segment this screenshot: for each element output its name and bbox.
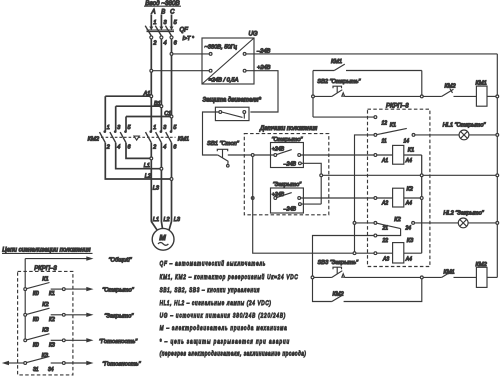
svg-text:L1: L1 (153, 217, 159, 223)
wire terminal 22 riser to arm (377, 229, 401, 236)
svg-text:КМ1: КМ1 (178, 137, 189, 143)
power supply UG box (202, 32, 258, 85)
svg-text:4: 4 (163, 145, 166, 151)
contact KM2 NC (423, 89, 476, 97)
svg-text:24: 24 (405, 226, 412, 232)
relay unit РКРП-3 dashed box (368, 109, 430, 266)
wire terminal 22 to SB3 node (313, 236, 375, 277)
node terminal A1 (374, 154, 377, 157)
svg-text:5: 5 (174, 20, 178, 26)
contact K2 signal (24, 308, 65, 316)
node bus junction K2 coil (420, 197, 423, 200)
svg-text:6: 6 (174, 40, 178, 46)
contactor coil KM2 (476, 267, 487, 287)
node bus junction at A3 row (353, 252, 356, 255)
wire protection to SB1 (203, 112, 219, 155)
wire -24 return to rail (323, 174, 496, 176)
svg-text:31: 31 (33, 367, 39, 373)
wire A1 to K1 coil (377, 154, 393, 156)
svg-text:5: 5 (128, 125, 132, 131)
svg-text:QF – автоматический выключател: QF – автоматический выключатель (160, 260, 266, 268)
svg-text:+24В: +24В (272, 146, 285, 152)
wire motor leads (151, 222, 171, 231)
wire A1 to KM2 pole1 (105, 96, 150, 131)
svg-text:1: 1 (153, 20, 156, 26)
svg-text:КМ1, КМ2 – контактор реверсивн: КМ1, КМ2 – контактор реверсивный Uк=24 V… (160, 273, 299, 281)
svg-text:12: 12 (382, 120, 388, 126)
relay coil K1 (393, 145, 404, 164)
wire K3 coil to bus (404, 252, 422, 254)
wire Закрыто with arrow (65, 313, 93, 317)
net Ввод ~380В title (144, 0, 181, 7)
breaker QF pole 1 arm (145, 26, 153, 39)
svg-text:КМ2: КМ2 (88, 137, 100, 143)
node rail junction KM1 coil (496, 95, 499, 98)
svg-text:1: 1 (153, 125, 156, 131)
svg-text:(перегрев электродвигателя, за: (перегрев электродвигателя, заклинивание… (160, 351, 306, 358)
pin K0 K3 labels (33, 342, 55, 348)
node terminal A2 (374, 197, 377, 200)
contact K3 signal (24, 334, 65, 342)
contactor KM1 pole 1 contact (146, 130, 153, 142)
svg-text:КМ1: КМ1 (331, 59, 342, 65)
wire signal common bus (24, 259, 26, 341)
node terminal 21 (374, 222, 377, 225)
svg-text:HL2 “Закрыто”: HL2 “Закрыто” (443, 211, 484, 217)
svg-text:SB1, SB2, SB3 – кнопки управле: SB1, SB2, SB3 – кнопки управления (160, 287, 260, 294)
svg-text:HL1, HL2 – сигнальные лампы (: HL1, HL2 – сигнальные лампы (24 VDC) (160, 300, 272, 307)
wire sensor closed output to K2 coil A2 (301, 197, 374, 199)
breaker QF pole 2 arm (155, 26, 163, 39)
sensor Закрыто box (271, 188, 304, 213)
wire C1 to KM2 pole3 (126, 117, 170, 132)
wire -24V right rail (496, 54, 498, 278)
node L2 (145, 167, 163, 179)
svg-text:К2: К2 (42, 302, 49, 308)
motor lead labels L1 L2 L3 (153, 217, 181, 223)
wire left arrow ready row (2, 361, 24, 365)
wire phase B incoming (159, 15, 163, 31)
svg-text:6: 6 (173, 145, 176, 151)
node L1 (144, 157, 153, 169)
svg-text:А4: А4 (405, 201, 412, 207)
node junction +24 to sensor closed (251, 197, 254, 200)
wire tap C to UG input (173, 53, 209, 55)
wire +24 feed bus vertical (355, 135, 375, 252)
svg-text:21: 21 (382, 226, 389, 232)
svg-text:КМ2: КМ2 (333, 291, 345, 297)
pin K0 K2 labels (33, 317, 55, 323)
svg-text:А1: А1 (381, 158, 388, 164)
svg-text:К1: К1 (390, 122, 396, 128)
node tap C to UG (170, 53, 173, 56)
wire K1 coil to minus bus (404, 154, 422, 156)
contact KM1 selfhold branch (313, 64, 422, 95)
svg-text:34: 34 (48, 367, 54, 373)
wire KM2 coil to rail (487, 276, 497, 278)
svg-text:“Закрыто”: “Закрыто” (104, 313, 134, 319)
pin K0 K1 labels (33, 291, 55, 297)
contact K1 signal (24, 283, 65, 291)
svg-text:К0: К0 (33, 291, 39, 297)
svg-text:HL1 “Открыто”: HL1 “Открыто” (443, 122, 487, 128)
wire sensor open output to K1 coil A1 (301, 154, 374, 156)
svg-text:L3: L3 (153, 185, 160, 191)
svg-text:“Готовность”: “Готовность” (99, 339, 138, 345)
svg-text:1: 1 (107, 125, 110, 131)
svg-text:5: 5 (173, 125, 177, 131)
svg-text:=24В / 0,5А: =24В / 0,5А (209, 78, 239, 84)
position sensors dashed box (244, 134, 328, 215)
svg-text:А2: А2 (381, 201, 388, 207)
lamp HL2 (458, 218, 468, 228)
wire +24 bus down (253, 156, 354, 253)
wire KM1 pole1 down to motor (150, 143, 152, 222)
wire HL2 to rail (468, 222, 496, 224)
svg-text:L3: L3 (174, 217, 181, 223)
relay coil K2 (393, 188, 404, 207)
svg-text:А4: А4 (405, 256, 412, 262)
wire sensor open -24 (301, 163, 321, 204)
signal РКРП-3 dashed box (18, 271, 73, 375)
wire bus to terminal 21 (356, 222, 374, 224)
wire terminal 14 to HL1 (415, 134, 459, 136)
wire KM1 coil to rail (487, 95, 496, 97)
node sensors -24 junction (320, 174, 323, 177)
svg-text:М – электродвигатель привода м: М – электродвигатель привода механизма (160, 325, 287, 332)
contact K3 ready (24, 356, 65, 364)
svg-text:К3: К3 (49, 342, 55, 348)
svg-text:К2: К2 (394, 217, 401, 223)
wire tap A to UG input (153, 70, 210, 72)
node L3 (153, 178, 173, 192)
svg-text:“Закрыто”: “Закрыто” (273, 182, 302, 188)
node junction after SB1 (251, 154, 254, 157)
node terminal 14 (412, 134, 415, 137)
node C1 (164, 111, 173, 118)
breaker QF tie bar (147, 30, 175, 32)
node rail junction HL1 (496, 134, 499, 137)
node terminal A3 (374, 252, 377, 255)
svg-text:* – цепь защиты разрывается п: * – цепь защиты разрывается при аварии (160, 339, 290, 346)
wire KM1 pole3 down to motor (171, 143, 173, 222)
wire KM2 pole1 crossover to L3 (105, 143, 170, 179)
node SB3 left junction (311, 276, 314, 279)
svg-text:Защита двигателя*: Защита двигателя* (203, 97, 262, 103)
contact KM2 selfhold branch (313, 279, 422, 302)
wire KM2 pole2 crossover to L2 (116, 143, 160, 169)
wire to A3 terminal (356, 252, 374, 254)
svg-text:В: В (161, 9, 165, 15)
svg-text:3: 3 (117, 125, 120, 131)
svg-text:К1: К1 (42, 276, 48, 282)
svg-text:А3: А3 (382, 256, 389, 262)
svg-text:“Готовность”: “Готовность” (102, 362, 141, 368)
svg-text:UG – источник питания 380/24В: UG – источник питания 380/24В (220/24В) (160, 313, 286, 320)
wire B1 to KM2 pole2 (116, 106, 160, 131)
wire SB2 node to terminal 12 (313, 116, 374, 118)
wire KM2 pole3 crossover to L1 (126, 143, 150, 159)
pushbutton SB2 (314, 86, 420, 96)
svg-text:К2: К2 (407, 186, 414, 192)
svg-text:А4: А4 (405, 158, 412, 164)
svg-text:К1: К1 (49, 291, 55, 297)
node SB2 left junction (312, 95, 315, 98)
contactor KM1 pole 3 contact (166, 130, 173, 142)
svg-text:–24В: –24В (283, 207, 297, 213)
node bus junction -24 row (420, 174, 423, 177)
svg-text:К3: К3 (42, 328, 49, 334)
wire phase B vertical (160, 39, 162, 131)
svg-text:А: А (150, 9, 155, 15)
svg-text:4: 4 (164, 40, 167, 46)
pushbutton SB1 (217, 149, 229, 167)
svg-text:К1: К1 (408, 148, 414, 154)
node B1 (154, 101, 163, 108)
wire Общий with arrow (25, 256, 93, 260)
svg-text:2: 2 (106, 145, 110, 151)
svg-text:3: 3 (163, 125, 166, 131)
wire Открыто with arrow (65, 287, 93, 291)
svg-text:L2: L2 (164, 217, 170, 223)
wire phase C incoming (170, 15, 174, 31)
signal circuits title (2, 247, 93, 254)
wire phase C vertical (171, 39, 173, 131)
wire +24V from UG (246, 71, 278, 112)
svg-text:QF: QF (180, 28, 189, 34)
pushbutton SB3 (314, 267, 421, 277)
wire K2 coil to bus (404, 197, 421, 199)
svg-text:3: 3 (164, 20, 168, 26)
wire terminal 24 to HL2 (415, 222, 459, 224)
wire HL1 to rail (469, 134, 496, 136)
wire SB2 left node vertical (312, 71, 314, 118)
svg-text:Цепи сигнализации положения: Цепи сигнализации положения (2, 247, 91, 254)
contact KM1 NC (423, 270, 476, 278)
svg-text:С: С (170, 9, 175, 15)
node rail junction HL2 (496, 222, 499, 225)
svg-text:“Общий”: “Общий” (109, 257, 133, 264)
svg-text:SB1 “Стоп”: SB1 “Стоп” (207, 141, 240, 147)
svg-text:2: 2 (152, 145, 156, 151)
legend text (160, 260, 306, 358)
svg-text:К3: К3 (407, 238, 414, 244)
contactor KM2 pole 3 contact (120, 130, 127, 142)
svg-text:К0: К0 (33, 342, 39, 348)
node terminal 12 (374, 116, 377, 119)
wire Готовность 2 with arrow (65, 361, 93, 365)
svg-text:SB3 “Закрыть”: SB3 “Закрыть” (318, 260, 360, 266)
node terminal 24 (412, 222, 415, 225)
svg-text:+24В: +24В (257, 65, 271, 71)
svg-text:4: 4 (117, 145, 120, 151)
svg-text:I>T °: I>T ° (183, 36, 195, 42)
wire coil common bus vertical (421, 155, 423, 253)
relay coil K3 (393, 243, 404, 263)
svg-text:К0: К0 (33, 317, 39, 323)
node bus junction at K2 common (353, 222, 356, 225)
svg-text:6: 6 (128, 145, 131, 151)
wire KM1 pole2 down to motor (160, 143, 162, 222)
wire phase A vertical (150, 39, 152, 131)
node junction SB3 right (420, 276, 423, 279)
breaker QF pole 3 arm (165, 26, 173, 39)
node junction SB2 right (420, 95, 423, 98)
svg-text:14: 14 (404, 139, 410, 145)
wire junction to sensor open (254, 154, 274, 156)
contact K2 changeover arm (377, 223, 401, 228)
svg-text:Датчики положения: Датчики положения (259, 126, 318, 132)
wire Готовность with arrow (65, 338, 93, 342)
pin 31 34 labels (33, 367, 54, 373)
contactor KM1 pole 2 contact (156, 130, 163, 142)
wire -24V top rail (246, 53, 497, 55)
svg-text:М: М (159, 233, 166, 242)
sensor Открыто box (271, 143, 304, 168)
contactor coil KM1 (476, 86, 487, 106)
svg-text:~380В, 50Гц: ~380В, 50Гц (205, 45, 238, 51)
wire sensor closed -24 (301, 203, 321, 205)
mechanical linkage dashed (101, 136, 176, 138)
lamp HL1 (459, 130, 469, 140)
svg-text:SB2 “Открыть”: SB2 “Открыть” (317, 79, 361, 85)
svg-text:2: 2 (152, 40, 157, 46)
node tap A to UG (150, 69, 153, 72)
svg-text:11: 11 (382, 139, 387, 145)
motor M (152, 228, 174, 250)
svg-text:К2: К2 (49, 317, 55, 323)
wire SB1 to sensors junction (228, 154, 252, 156)
mechanical interlock triangle (134, 136, 139, 140)
wire phase A incoming (149, 15, 153, 31)
node terminal 11 (374, 134, 377, 137)
contactor KM2 pole 2 contact (110, 130, 117, 142)
contact K1 changeover arm (377, 128, 407, 134)
wire A3 to K3 coil (377, 252, 393, 254)
node rail junction -24 row (496, 174, 499, 177)
node terminal 22 (374, 234, 377, 237)
svg-text:UG: UG (249, 32, 258, 38)
contactor KM2 pole 1 contact (100, 130, 107, 142)
svg-text:“Открыто”: “Открыто” (102, 288, 134, 294)
wire A2 to K2 coil (377, 197, 393, 199)
svg-text:22: 22 (382, 238, 389, 244)
svg-text:–24В: –24В (283, 161, 297, 167)
motor protection box (215, 107, 249, 120)
node A1 (143, 91, 153, 98)
